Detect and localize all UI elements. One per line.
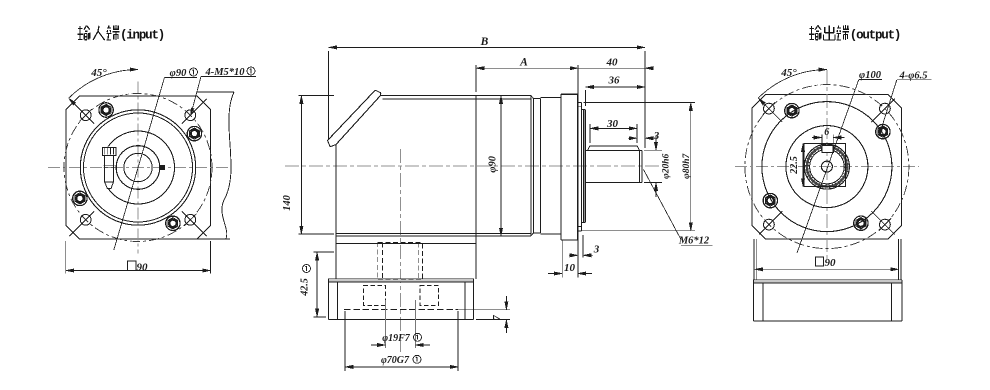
right view title 输出端(output) — [809, 27, 814, 29]
left view title 输入端(input) — [78, 27, 83, 29]
dimension A — [475, 65, 477, 92]
svg-text:A: A — [519, 56, 528, 68]
middle view body outline — [381, 95, 532, 97]
dimension phi19F7 bore — [384, 300, 386, 348]
left view pilot circle phi90 — [80, 110, 195, 225]
dimension 3 pilot stand-off — [582, 235, 584, 257]
middle view vertical axis line — [399, 149, 401, 352]
left view dim square90 — [128, 261, 136, 270]
svg-text:36: 36 — [608, 74, 621, 86]
svg-text:22.5: 22.5 — [789, 156, 800, 175]
right view dim 6 keyway width — [821, 135, 823, 144]
right view clamp ring inner serration — [807, 147, 847, 187]
right view boss circle — [786, 126, 868, 208]
svg-text:6: 6 — [824, 127, 829, 138]
left view square flange outline — [66, 96, 211, 239]
dimension 7 spigot depth — [459, 309, 510, 311]
svg-text:φ20h6: φ20h6 — [662, 154, 672, 179]
dimension 3 keyway to shaft end — [628, 137, 637, 139]
middle view shaft keyway — [590, 145, 637, 147]
svg-text:140: 140 — [282, 194, 293, 211]
svg-text:45°: 45° — [780, 67, 797, 79]
left view inner flange circle — [84, 113, 193, 222]
svg-text:10: 10 — [564, 262, 576, 274]
left view bore keyway tick — [160, 166, 165, 170]
svg-text:(input): (input) — [120, 29, 164, 43]
svg-text:(output): (output) — [850, 29, 900, 43]
svg-text:φ90: φ90 — [488, 155, 499, 172]
middle view output shaft — [585, 149, 642, 151]
svg-text:42.5: 42.5 — [300, 278, 311, 297]
right view center lines — [735, 166, 919, 168]
left view corner diagonals through M5 holes — [182, 99, 207, 124]
dimension 10 flange width — [561, 240, 563, 277]
middle view phi80 pilot — [578, 102, 582, 104]
right view keyway notch — [822, 145, 833, 152]
svg-text:φ70G7: φ70G7 — [381, 355, 410, 366]
dimension B — [328, 51, 330, 139]
right view square flange outline — [752, 95, 902, 239]
middle view shaft root face — [583, 110, 585, 223]
left view bolt circle (dash-dot) — [64, 94, 212, 242]
right view bottom plate — [753, 279, 902, 281]
middle view output flange disc — [560, 94, 562, 240]
dimension phi80h7 pilot — [584, 102, 696, 104]
leader M6*12 tapped hole — [644, 170, 682, 240]
right view 4x socket screw heads — [876, 124, 890, 138]
middle view horizontal axis line — [285, 165, 660, 167]
middle view chamfer corner strip — [328, 90, 376, 140]
svg-text:M6*12: M6*12 — [678, 235, 710, 246]
middle view hidden input collar (dashed) — [378, 243, 423, 280]
left view 4x socket screw heads — [187, 126, 201, 140]
svg-text:3: 3 — [593, 244, 600, 256]
middle view hidden phi70 spigot line (dashed) — [344, 308, 458, 310]
dimension 36 — [585, 90, 587, 106]
right view bolt circle dash-dot — [745, 85, 909, 249]
dimension 140 height — [299, 95, 335, 97]
svg-text:φ80h7: φ80h7 — [682, 153, 692, 179]
dimension phi70G7 spigot — [344, 311, 346, 371]
left view break-out tab with wavy break line — [197, 91, 234, 93]
right view neck section — [753, 239, 755, 280]
dimension 40 — [578, 67, 645, 69]
svg-text:φ19F7: φ19F7 — [382, 333, 411, 344]
right view corner diagonals — [871, 99, 894, 122]
middle view bottom plate — [329, 278, 474, 280]
svg-text:40: 40 — [606, 57, 619, 69]
right view 45deg dimension arc — [758, 70, 827, 98]
middle view cylinder section and rear cover — [530, 96, 532, 236]
right view dim 22.5 — [802, 144, 804, 187]
svg-text:30: 30 — [606, 118, 619, 130]
svg-text:B: B — [480, 36, 489, 48]
right view phi100 flange circle — [762, 102, 892, 232]
dimension 42.5 input axis height — [314, 251, 335, 253]
dimension 30 keyway length — [589, 124, 591, 143]
left view 45deg dimension arc — [69, 70, 138, 99]
middle view hidden plate holes (dashed) — [364, 286, 386, 306]
left view clamp bolt — [103, 147, 116, 155]
right view center hole — [821, 161, 832, 172]
dimension phi90 body — [500, 96, 502, 237]
svg-text:45°: 45° — [90, 67, 107, 79]
left view shaft bore circle — [116, 146, 160, 190]
svg-text:90: 90 — [137, 261, 149, 273]
left view center lines — [48, 167, 228, 169]
svg-text:90: 90 — [825, 257, 837, 269]
right view 22.5 square hub — [804, 144, 846, 187]
left view hollow bore circle — [124, 153, 152, 181]
left view clamp collar circle — [108, 131, 174, 204]
right view 4x phi6.5 holes with cross marks — [880, 103, 891, 114]
dimension phi20h6 shaft — [644, 149, 662, 151]
right view clamp ring outer — [804, 144, 849, 189]
left view 4x M5 holes with cross marks — [185, 110, 196, 121]
right view dim square90 — [815, 257, 823, 266]
